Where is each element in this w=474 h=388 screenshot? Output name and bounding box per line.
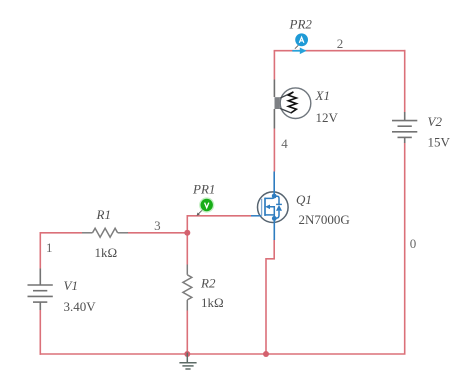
label R1 (96, 207, 111, 222)
label Q1 (296, 192, 312, 207)
Q1 top stub (265, 196, 274, 198)
wire node3 horizontal (R1 to junction) (128, 232, 187, 234)
svg-text:15V: 15V (428, 135, 451, 150)
Q1 drain junction dot (272, 194, 277, 199)
svg-text:3.40V: 3.40V (64, 299, 97, 314)
Q1 body diode cathode line (274, 196, 279, 204)
lamp X1 (274, 80, 310, 129)
label V2 (428, 114, 443, 129)
wire right vertical lower (V2 to bottom, node 0) (404, 143, 406, 355)
junction ground net at source (263, 351, 269, 357)
Q1 source stub (265, 214, 274, 216)
Q1 body stub (269, 207, 274, 219)
value 1kOhm R2 (201, 295, 224, 310)
svg-text:R1: R1 (96, 207, 111, 222)
svg-text:V2: V2 (428, 114, 443, 129)
svg-text:R2: R2 (200, 276, 216, 291)
svg-text:PR1: PR1 (192, 182, 215, 197)
Q1 source lead (pin S) (273, 218, 275, 240)
svg-text:12V: 12V (316, 110, 339, 125)
wire bottom horizontal (ground net) (40, 353, 406, 355)
wire R2 to ground vertical (186, 311, 188, 355)
svg-text:2: 2 (337, 36, 344, 51)
label PR1 (192, 182, 215, 197)
wire right vertical upper (node2 to V2) (404, 50, 406, 113)
wire left vertical lower (V1 to bottom) (39, 310, 41, 355)
battery V2 (392, 112, 417, 143)
svg-text:1kΩ: 1kΩ (95, 245, 118, 260)
svg-text:1: 1 (46, 240, 53, 255)
net label 3 (154, 218, 161, 233)
value 1kOhm R1 (95, 245, 118, 260)
svg-text:V1: V1 (64, 278, 78, 293)
Q1 body diode cathode bar (276, 203, 282, 205)
probe PR2 (current) (292, 33, 308, 54)
value 12V (316, 110, 339, 125)
label R2 (200, 276, 216, 291)
wire left vertical upper (node1, R1 to V1) (39, 232, 41, 268)
wire node4 vertical (X1 to Q1 drain) (273, 129, 275, 172)
svg-text:1kΩ: 1kΩ (201, 295, 224, 310)
battery V1 (28, 269, 53, 311)
wire lamp top vertical (node2 corner to X1) (273, 51, 275, 80)
Q1 drain lead (pin D) (273, 172, 275, 197)
junction node 3 (184, 230, 190, 236)
resistor R1 (82, 228, 128, 237)
svg-text:2N7000G: 2N7000G (299, 212, 350, 227)
resistor R2 (183, 265, 192, 311)
Q1 body diode triangle (276, 205, 282, 211)
wire gate horizontal (corner to Q1 gate) (187, 215, 252, 217)
Q1 gate bar (261, 199, 263, 216)
wire node2 top horizontal (274, 50, 406, 52)
label X1 (315, 88, 330, 103)
Q1 source junction dot (272, 216, 277, 221)
wire node3 to R2 vertical (186, 233, 188, 265)
Q1 gate lead (pin G) (251, 215, 262, 217)
value 15V (428, 135, 451, 150)
svg-text:3: 3 (154, 218, 161, 233)
net label 2 (337, 36, 344, 51)
svg-text:0: 0 (410, 236, 417, 251)
Q1 channel bar (264, 198, 266, 216)
value 2N7000G (299, 212, 350, 227)
net label 1 (46, 240, 53, 255)
wire source to bottom (with jog) (266, 240, 274, 355)
junction ground net at R2 (184, 351, 190, 357)
svg-text:4: 4 (281, 136, 288, 151)
svg-text:X1: X1 (315, 88, 330, 103)
Q1 body diode anode line (275, 211, 279, 219)
net label 0 (410, 236, 417, 251)
net label 4 (281, 136, 288, 151)
label PR2 (289, 17, 313, 32)
Q1 body arrow (265, 205, 270, 210)
transistor Q1 (NMOS 2N7000G) (251, 172, 288, 241)
probe PR1 (voltage) (197, 197, 215, 215)
svg-text:PR2: PR2 (289, 17, 313, 32)
label V1 (64, 278, 78, 293)
svg-text:Q1: Q1 (296, 192, 312, 207)
wire node3 vertical (junction up to gate corner) (186, 216, 188, 233)
ground (179, 353, 196, 370)
wire node1 horizontal (V1 to R1) (40, 232, 83, 234)
Q1 circle (258, 192, 289, 223)
value 3.40V (64, 299, 97, 314)
